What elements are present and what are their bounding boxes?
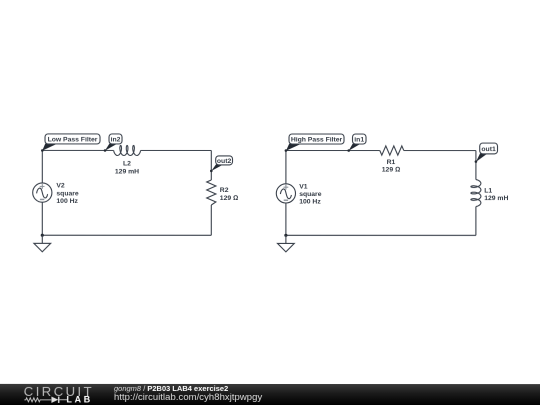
svg-text:in1: in1 [354,137,364,144]
wire top segment (corner to R1) [286,150,380,152]
svg-text:L2: L2 [123,161,131,168]
value label R1 [382,159,400,174]
svg-text:100 Hz: 100 Hz [299,199,321,206]
svg-text:in2: in2 [111,136,121,143]
wire top-left vertical (V1 top to corner) [285,151,287,184]
value label L2 [115,161,139,176]
svg-text:out2: out2 [217,158,232,165]
junction (right circuit ground node) [284,234,287,237]
wire L1 to bottom corner [475,207,477,236]
resistor R1 [380,146,404,155]
wire V2 bottom to bottom wire [41,202,43,235]
svg-text:High Pass Filter: High Pass Filter [291,137,343,144]
wire right vertical down to R2 [210,150,212,180]
value label L1 [484,187,508,202]
svg-text:out1: out1 [481,146,496,153]
value label V1 [299,183,322,205]
wire V1 bottom to bottom wire [285,203,287,235]
svg-text:129 mH: 129 mH [115,168,139,175]
svg-text:R2: R2 [220,187,229,194]
value label R2 [220,187,238,202]
svg-text:V1: V1 [299,183,308,190]
ground (right circuit) [277,235,294,252]
voltage source V2 [33,183,52,202]
svg-text:Low Pass Filter: Low Pass Filter [48,136,98,143]
footer bar [0,384,540,405]
node flag in1 [347,134,366,152]
svg-text:129 mH: 129 mH [484,195,508,202]
svg-text:square: square [56,190,79,197]
resistor R2 [207,180,216,205]
svg-text:V2: V2 [56,183,65,190]
svg-text:square: square [299,191,322,198]
wire R2 to bottom corner [210,205,212,235]
node flag Low Pass Filter [41,134,100,152]
wire top segment (corner to L2) [42,149,113,151]
svg-text:L1: L1 [484,187,492,194]
wire L2 to right corner [141,149,212,151]
CircuitLab logo [0,384,110,405]
svg-text:100 Hz: 100 Hz [56,198,78,205]
svg-text:LAB: LAB [66,395,92,405]
wire bottom (left circuit) [42,234,211,236]
voltage source V1 [276,184,295,203]
junction (left circuit ground node) [41,234,44,237]
wire R1 to right corner [404,150,476,152]
node flag out2 [210,156,233,172]
svg-text:129 Ω: 129 Ω [382,167,400,174]
node flag out1 [475,143,498,163]
inductor L2 [114,145,141,155]
ground (left circuit) [34,235,51,252]
node flag High Pass Filter [285,134,344,152]
node flag in2 [104,134,122,152]
wire top-left vertical (V2 top to corner) [41,150,43,183]
svg-text:129 Ω: 129 Ω [220,195,238,202]
value label V2 [56,183,79,205]
inductor L1 [471,180,481,207]
wire right vertical down to L1 [475,151,477,180]
wire bottom (right circuit) [286,234,476,236]
svg-text:R1: R1 [387,159,396,166]
